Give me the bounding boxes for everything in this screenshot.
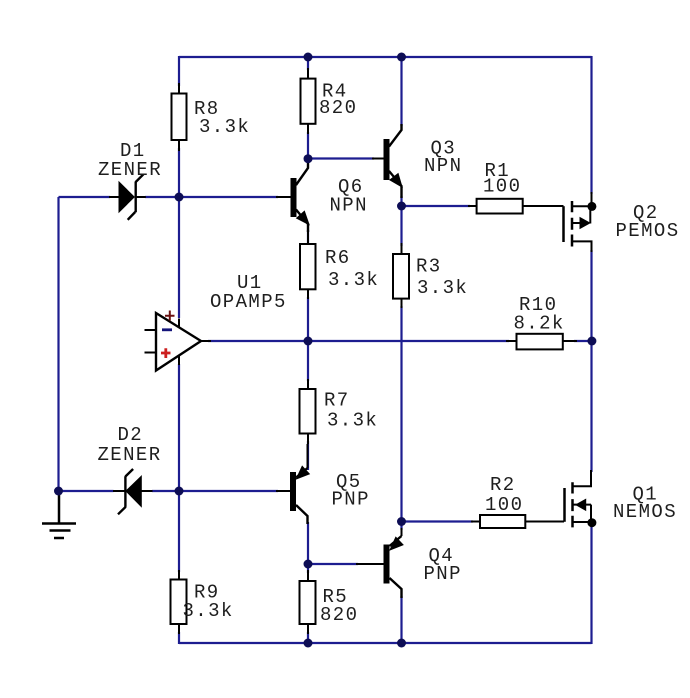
resistor R4 bbox=[301, 68, 358, 134]
node top rail / R4 bbox=[304, 53, 313, 62]
svg-text:R3: R3 bbox=[416, 256, 442, 278]
resistor R10 bbox=[506, 294, 577, 349]
transistor Q6 bbox=[276, 159, 368, 233]
zener diode D1 bbox=[98, 140, 162, 220]
node Q6 collector bbox=[304, 154, 313, 163]
node bottom rail / R5 bbox=[304, 639, 313, 648]
svg-text:D2: D2 bbox=[118, 424, 144, 446]
svg-text:PNP: PNP bbox=[424, 563, 462, 585]
svg-text:820: 820 bbox=[320, 604, 358, 626]
svg-text:NPN: NPN bbox=[330, 195, 368, 217]
node top rail / Q3 bbox=[397, 53, 406, 62]
ground bbox=[42, 493, 76, 538]
svg-text:8.2k: 8.2k bbox=[514, 313, 565, 335]
svg-text:3.3k: 3.3k bbox=[328, 269, 379, 291]
wire column B (R8/R9 column) bbox=[178, 56, 180, 644]
wire bottom rail bbox=[179, 642, 592, 644]
wire D2 row bbox=[59, 490, 279, 492]
node R10 / right rail bbox=[587, 337, 596, 346]
node op-amp output / R6 bbox=[304, 337, 313, 346]
svg-text:ZENER: ZENER bbox=[98, 444, 162, 466]
resistor R6 bbox=[300, 232, 379, 299]
wire D1 row bbox=[59, 196, 279, 198]
resistor R2 bbox=[471, 474, 564, 528]
wire R1 row bbox=[402, 205, 471, 207]
wire Q6 collector to Q3 base row bbox=[308, 157, 374, 159]
node D2 / column B bbox=[175, 487, 184, 496]
wire top rail bbox=[179, 56, 592, 58]
op-amp U1 bbox=[145, 272, 287, 371]
MOSFET Q1 (NEMOS) bbox=[565, 470, 678, 527]
svg-text:3.3k: 3.3k bbox=[417, 277, 468, 299]
svg-text:R7: R7 bbox=[324, 390, 350, 412]
node Q5 collector bbox=[304, 560, 313, 569]
svg-text:R2: R2 bbox=[490, 474, 516, 496]
svg-text:3.3k: 3.3k bbox=[327, 410, 378, 432]
zener diode D2 bbox=[98, 424, 162, 514]
svg-text:3.3k: 3.3k bbox=[199, 116, 250, 138]
transistor Q4 bbox=[356, 528, 462, 598]
wire Q5 collector to Q4 base row bbox=[308, 563, 358, 565]
svg-text:PNP: PNP bbox=[332, 489, 370, 511]
transistor Q5 bbox=[276, 444, 370, 524]
resistor R8 bbox=[172, 83, 251, 151]
resistor R5 bbox=[300, 570, 359, 634]
wire right rail bbox=[590, 56, 592, 644]
resistor R3 bbox=[393, 243, 468, 308]
node bottom rail / Q4 bbox=[397, 639, 406, 648]
transistor Q3 bbox=[372, 124, 462, 198]
resistor R9 bbox=[171, 570, 234, 634]
svg-text:OPAMP5: OPAMP5 bbox=[210, 291, 287, 313]
svg-text:R6: R6 bbox=[325, 247, 351, 269]
svg-text:100: 100 bbox=[483, 176, 521, 198]
node ground / left rail bbox=[54, 487, 63, 496]
svg-text:NPN: NPN bbox=[424, 155, 462, 177]
svg-text:PEMOS: PEMOS bbox=[616, 220, 680, 242]
node Q3 emitter / R1 bbox=[397, 202, 406, 211]
svg-text:3.3k: 3.3k bbox=[183, 600, 234, 622]
node R2 / column D bbox=[397, 517, 406, 526]
svg-text:100: 100 bbox=[485, 494, 523, 516]
wire column C (R4/R6/R7/R5 column) bbox=[307, 56, 309, 644]
svg-text:820: 820 bbox=[319, 97, 357, 119]
resistor R1 bbox=[468, 160, 564, 214]
wire column D (Q3/R3/Q4 column) bbox=[400, 56, 402, 644]
svg-text:ZENER: ZENER bbox=[98, 159, 162, 181]
MOSFET Q2 (PEMOS) bbox=[564, 192, 680, 252]
svg-text:NEMOS: NEMOS bbox=[613, 501, 677, 523]
wire R2 row bbox=[402, 520, 474, 522]
wire left rail bbox=[57, 197, 59, 491]
node Q2 source bbox=[587, 202, 596, 211]
resistor R7 bbox=[300, 379, 379, 444]
node Q1 source bbox=[587, 518, 596, 527]
wire op-amp output row bbox=[208, 340, 592, 342]
node D1 / column B bbox=[175, 193, 184, 202]
